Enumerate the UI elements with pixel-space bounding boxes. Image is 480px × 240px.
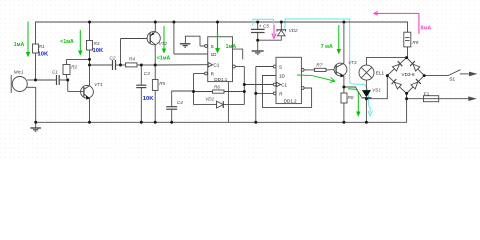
wire 1D to +rail <box>174 22 208 54</box>
svg-text:C3: C3 <box>144 71 150 76</box>
svg-text:C2: C2 <box>110 56 116 61</box>
svg-text:1D: 1D <box>279 73 286 78</box>
pin R DD1.2 with bubble <box>256 92 276 95</box>
wire bridge AC2 to VS1 cathode <box>366 76 387 99</box>
svg-text:VT1: VT1 <box>94 82 103 87</box>
green flow arrow DD1.2 output to VS1 gate node <box>297 75 335 82</box>
svg-text:<1мА: <1мА <box>157 55 171 61</box>
capacitor C1 <box>36 75 68 85</box>
svg-text:1мА: 1мА <box>14 42 25 48</box>
wire DD1.1 power stub <box>217 22 219 37</box>
svg-text:10K: 10K <box>38 52 49 58</box>
wire R column <box>193 74 195 105</box>
svg-text:R8: R8 <box>348 95 354 100</box>
pin 1D DD1.2 feedback wire <box>263 76 312 108</box>
pin C1 DD1.1 dynamic <box>208 63 212 67</box>
svg-text:1D: 1D <box>211 52 218 57</box>
cyan loop arrow C5 charge <box>253 19 274 25</box>
resistor R5 <box>152 65 158 122</box>
svg-text:R3: R3 <box>94 41 100 46</box>
lamp EL1 <box>359 58 407 91</box>
svg-text:S: S <box>211 44 214 49</box>
wire notQ column <box>243 67 245 105</box>
svg-text:+: + <box>259 24 262 29</box>
svg-text:<1мА: <1мА <box>60 39 74 45</box>
svg-text:C1: C1 <box>213 63 219 68</box>
green current arrow 1mA at R1 <box>27 22 29 54</box>
transistor VT2 <box>121 22 161 65</box>
switch S1 <box>424 70 469 76</box>
capacitor C3 <box>136 65 146 122</box>
svg-text:R9: R9 <box>412 40 418 45</box>
svg-text:10K: 10K <box>93 48 104 54</box>
svg-text:C1: C1 <box>281 82 287 87</box>
svg-text:EL1: EL1 <box>376 70 385 75</box>
wire bridge minus column <box>406 93 408 98</box>
svg-text:R6: R6 <box>214 84 220 89</box>
wire top supply rail <box>36 22 408 80</box>
svg-text:10K: 10K <box>143 96 154 102</box>
pin C1 DD1.2 with bubble and dynamic <box>244 82 280 86</box>
capacitor C4 <box>166 91 193 122</box>
svg-text:C5: C5 <box>263 23 269 28</box>
svg-text:VD2: VD2 <box>289 28 298 33</box>
resistor R2 <box>63 59 90 80</box>
ground symbol at DD1.1 S <box>180 44 191 47</box>
svg-text:S1: S1 <box>449 76 455 81</box>
magenta current arrow 8mA from mains <box>374 12 419 34</box>
svg-text:DD1.1: DD1.1 <box>214 77 227 82</box>
fuse F1 <box>407 96 469 102</box>
wire mains arrow lower <box>468 96 477 101</box>
green current arrow 7mA at VT3 <box>338 25 340 51</box>
resistor R3 <box>87 22 93 86</box>
svg-text:Mic1: Mic1 <box>14 69 24 74</box>
svg-text:1мА: 1мА <box>226 44 237 50</box>
pin notQ DD1.2 bubble <box>301 87 304 90</box>
wire VS1 gate <box>344 87 361 97</box>
transistor VT3 emitter arrow <box>340 73 344 77</box>
transistor VT1 <box>68 80 94 122</box>
green current arrow <1mA at R3 <box>79 30 81 52</box>
svg-text:F1: F1 <box>424 91 430 96</box>
capacitor C5 polarized <box>251 22 265 51</box>
resistor R9 <box>404 32 411 57</box>
ground symbol bottom left <box>30 122 41 131</box>
svg-text:R4: R4 <box>129 56 135 61</box>
svg-text:R5: R5 <box>159 81 165 86</box>
green current arrow through VS1 to ground <box>348 89 358 113</box>
svg-text:VT3: VT3 <box>348 60 357 65</box>
wire DD1.1 bottom stub to ground rail <box>227 82 229 123</box>
resistor R4 <box>121 63 208 67</box>
green current arrow <1mA at VT2 <box>163 26 165 50</box>
green current arrow 1mA into DD1.1 <box>217 33 219 50</box>
svg-text:R7: R7 <box>316 62 322 67</box>
resistor R6 <box>194 90 245 93</box>
wire VD2 to C5 ground node <box>258 36 282 40</box>
svg-text:R2: R2 <box>71 65 77 70</box>
wire bottom ground rail <box>36 87 407 122</box>
wire S R ground column <box>255 67 257 123</box>
svg-text:S: S <box>279 64 282 69</box>
cyan discharge loop through VS1 <box>285 19 372 116</box>
wire S to ground <box>185 36 200 46</box>
diode bridge VD3-6 <box>387 58 424 94</box>
svg-text:VT2: VT2 <box>159 41 168 46</box>
wire mains arrow upper <box>469 72 478 77</box>
svg-text:8мА: 8мА <box>421 25 432 31</box>
D flip-flop U1 DD1.1 <box>208 37 233 82</box>
svg-text:C1: C1 <box>52 70 58 75</box>
pin S DD1.1 with bubble <box>200 45 207 48</box>
thyristor VS1 <box>361 90 371 122</box>
ground symbol at C5 <box>252 51 264 54</box>
svg-text:VD3-6: VD3-6 <box>402 72 415 77</box>
pin Q DD1.2 bubble <box>301 69 304 72</box>
pin S DD1.2 with bubble <box>256 65 276 68</box>
capacitor C2 <box>90 60 121 70</box>
pin notQ DD1.1 with bubble <box>233 65 245 68</box>
resistor R1 <box>33 44 39 53</box>
svg-text:DD1.2: DD1.2 <box>284 99 297 104</box>
svg-text:7 мА: 7 мА <box>321 44 333 50</box>
svg-text:R1: R1 <box>39 44 45 49</box>
pin Q DD1.1 stub <box>233 49 243 59</box>
microphone Mic1 <box>11 75 36 93</box>
svg-text:VS1: VS1 <box>372 87 381 92</box>
diode VD1 <box>194 101 245 108</box>
magenta current arrow at VD2 <box>272 25 276 39</box>
transistor VT3 <box>334 22 347 87</box>
svg-text:VD1: VD1 <box>205 96 214 101</box>
transistor VT2 emitter arrow <box>151 32 155 36</box>
zener diode VD2 <box>277 22 286 36</box>
D flip-flop U2 DD1.2 <box>276 57 301 103</box>
svg-text:C4: C4 <box>177 100 183 105</box>
resistor R8 <box>341 87 347 122</box>
pin R DD1.1 with bubble <box>194 72 208 75</box>
transistor VT1 emitter arrow <box>86 95 90 99</box>
resistor R7 <box>304 68 334 71</box>
